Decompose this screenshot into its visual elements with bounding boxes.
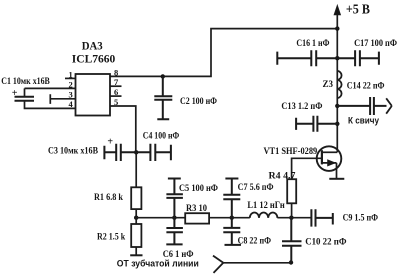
transistor VT1 circle: [317, 146, 342, 171]
node: R1/R2 main wire junction: [134, 216, 138, 220]
node: C7/C8 junction: [230, 216, 234, 220]
inductor L1: [250, 213, 278, 218]
wire R4 top to gate: [292, 158, 322, 179]
svg-text:C16 1 нФ: C16 1 нФ: [296, 39, 329, 49]
svg-text:1: 1: [69, 69, 73, 79]
svg-text:C14 22 пФ: C14 22 пФ: [347, 82, 385, 92]
capacitor C8: [223, 218, 241, 245]
capacitor C13: [296, 116, 337, 132]
pin 3 stub with terminal bar: [50, 94, 75, 104]
capacitor C2: [154, 76, 172, 119]
wire R1 to R2: [135, 209, 137, 224]
capacitor C17: [337, 50, 379, 66]
svg-text:ICL7660: ICL7660: [72, 53, 116, 66]
wire L1 to C9: [277, 217, 311, 219]
capacitor C4: [136, 144, 171, 161]
svg-text:C9 1.5 пФ: C9 1.5 пФ: [343, 213, 378, 223]
wire R4 bottom to main wire: [291, 203, 293, 217]
capacitor C3 (polarized): [104, 144, 136, 161]
ground bar under VT1: [329, 178, 344, 180]
capacitor C1: [15, 97, 35, 101]
+5V arrow: [334, 6, 340, 15]
svg-text:C10 22 пФ: C10 22 пФ: [305, 238, 346, 248]
svg-text:R4 4.7: R4 4.7: [269, 171, 296, 181]
+5V rail: [336, 14, 338, 153]
wire pin8 to +5V rail: [110, 29, 337, 77]
wire junction down to R1: [135, 152, 137, 187]
svg-text:L1 12 нГн: L1 12 нГн: [247, 201, 285, 211]
svg-text:К свичу: К свичу: [348, 116, 379, 126]
svg-text:Z3: Z3: [323, 80, 334, 90]
node: rail/C16 C17 junction: [335, 56, 339, 60]
svg-text:VT1 SHF-0289: VT1 SHF-0289: [264, 147, 318, 157]
svg-text:C13 1.2 пФ: C13 1.2 пФ: [281, 102, 322, 112]
svg-text:C3 10мк х16В: C3 10мк х16В: [48, 147, 99, 157]
resistor R4: [287, 179, 296, 203]
transistor VT1 source arrow: [328, 160, 336, 166]
pin 7 stub: [110, 85, 122, 87]
capacitor C5: [166, 179, 183, 218]
resistor R3: [185, 213, 209, 223]
capacitor C10: [282, 218, 302, 263]
wire R3 to L1: [209, 217, 250, 219]
inductor Z3: [337, 71, 341, 98]
svg-text:C8 22 пФ: C8 22 пФ: [238, 236, 271, 246]
node: C5/C6 junction: [172, 216, 176, 220]
svg-text:DA3: DA3: [82, 41, 103, 53]
svg-text:R2 1.5 k: R2 1.5 k: [97, 232, 126, 242]
wire R2 to bottom bar: [135, 247, 137, 255]
transistor VT1 source path: [322, 163, 337, 179]
pin 1 stub: [65, 77, 76, 79]
svg-text:C5 100 нФ: C5 100 нФ: [179, 184, 218, 194]
transistor VT1 channel bar: [321, 150, 323, 164]
arrow from sawtooth line: [213, 256, 223, 273]
node: rail/top wire junction: [335, 26, 339, 30]
node: C3/C4/pin5/R1 junction: [134, 150, 138, 154]
svg-text:ОТ зубчатой линии: ОТ зубчатой линии: [117, 258, 199, 268]
svg-text:8: 8: [114, 67, 118, 77]
svg-text:C7 5.6 пФ: C7 5.6 пФ: [238, 183, 274, 193]
wire C1 to pin 4: [25, 101, 76, 109]
svg-text:C17 100 пФ: C17 100 пФ: [354, 39, 397, 49]
bottom wire from arrow to C10: [223, 262, 291, 264]
node: rail/C13 junction: [335, 122, 339, 126]
capacitor C7: [223, 179, 240, 218]
svg-text:3: 3: [69, 90, 73, 100]
wire pin 2 to C1: [25, 88, 76, 96]
node: C10 bottom junction: [289, 260, 293, 264]
pin 6 stub: [110, 95, 122, 97]
svg-text:6: 6: [114, 87, 118, 97]
svg-text:2: 2: [69, 79, 73, 89]
main wire to R3: [136, 217, 185, 219]
svg-text:5: 5: [114, 97, 118, 107]
node: R4/C10/L1/C9 junction: [289, 216, 293, 220]
svg-text:C4 100 нФ: C4 100 нФ: [143, 132, 179, 142]
svg-text:+5 В: +5 В: [346, 2, 370, 17]
svg-text:+: +: [12, 88, 18, 99]
resistor R2: [131, 224, 141, 247]
svg-text:C1 10мк х16В: C1 10мк х16В: [1, 77, 50, 87]
op-amp U1: IC DA3 ICL7660 box: [76, 74, 111, 116]
svg-text:+: +: [107, 137, 113, 148]
node: rail/C14 junction: [335, 104, 339, 108]
arrow to switch: [386, 98, 392, 113]
capacitor C9: [311, 209, 332, 226]
node: pin8/C2 junction: [161, 74, 165, 78]
svg-text:R3 10: R3 10: [186, 204, 207, 214]
svg-text:R1 6.8 k: R1 6.8 k: [94, 193, 124, 203]
ground bar under R2: [130, 254, 142, 256]
capacitor C16: [277, 50, 337, 66]
svg-text:C2 100 нФ: C2 100 нФ: [180, 97, 217, 107]
wire pin 5 down to C3/C4 node: [110, 106, 136, 152]
capacitor C14 with arrow to switch: [337, 97, 386, 115]
transistor VT1 drain path: [322, 151, 337, 153]
capacitor C6: [166, 218, 183, 245]
resistor R1: [131, 187, 141, 209]
